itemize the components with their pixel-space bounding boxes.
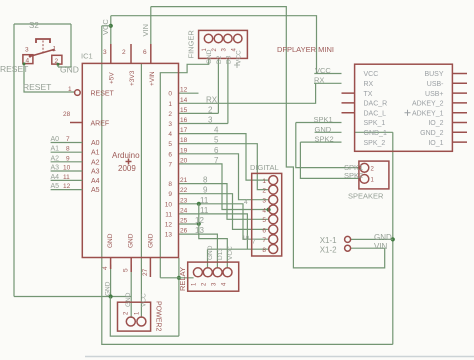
FINGER net labels: [206, 49, 243, 64]
svg-text:VCC: VCC: [236, 50, 243, 64]
svg-text:D3: D3: [226, 55, 233, 64]
svg-text:6: 6: [168, 151, 172, 158]
FINGER origin cross: [234, 62, 240, 68]
svg-text:1: 1: [53, 46, 57, 53]
svg-text:7: 7: [168, 161, 172, 168]
wire D8 to DIGITAL 5: [179, 184, 269, 220]
SPEAKER pin numbers: [371, 167, 375, 184]
wire D5 to DIGITAL 2: [179, 144, 269, 190]
wire GND to RELAY pin1: [160, 277, 193, 279]
svg-text:2: 2: [208, 105, 213, 114]
wire D4 to DIGITAL 1: [179, 134, 269, 181]
svg-text:0: 0: [168, 91, 172, 98]
svg-text:4: 4: [26, 58, 30, 65]
wire GND DFPLAYER GND_1 crossing symbol: [315, 131, 393, 133]
svg-text:24: 24: [180, 207, 188, 214]
svg-text:DIGITAL: DIGITAL: [250, 163, 279, 172]
wire D6 to DIGITAL 3: [179, 154, 269, 200]
pin 6 +VIN top: [150, 44, 152, 63]
wire RX Arduino to DFPLAYER: [179, 83, 342, 103]
svg-text:SPK2: SPK2: [315, 135, 334, 144]
wire GND main horizontal to POWER2: [14, 297, 131, 319]
wire VCC long vertical through IC to bottom GND rail: [102, 26, 393, 345]
svg-text:GND: GND: [107, 233, 114, 248]
RELAY pin circles: [193, 268, 232, 277]
junction GND at pin4: [109, 294, 113, 298]
svg-text:POWER2: POWER2: [155, 301, 162, 331]
svg-text:4: 4: [244, 199, 248, 206]
svg-text:A0: A0: [51, 136, 60, 143]
svg-text:A3: A3: [91, 169, 100, 176]
svg-text:26: 26: [180, 228, 188, 235]
connector FINGER: [199, 30, 248, 58]
DIGITAL external labels: [242, 199, 256, 246]
svg-text:4: 4: [102, 266, 109, 270]
DFPLAYER right pin stubs: [452, 74, 467, 143]
wire D2 to FINGER pin2: [179, 58, 219, 113]
svg-text:AREF: AREF: [91, 121, 110, 128]
wire GND Arduino pin4: [110, 265, 112, 297]
POWER2 pin circles: [126, 317, 146, 326]
svg-text:A0: A0: [91, 140, 100, 147]
svg-text:1: 1: [262, 178, 266, 185]
connector POWER2: [118, 302, 151, 331]
svg-text:2: 2: [122, 49, 126, 56]
svg-text:11: 11: [165, 211, 172, 218]
svg-text:7: 7: [262, 237, 266, 244]
svg-text:DFPLAYER MINI: DFPLAYER MINI: [277, 45, 334, 54]
svg-text:7: 7: [252, 239, 256, 246]
svg-text:TX: TX: [364, 91, 373, 98]
svg-text:A5: A5: [51, 183, 60, 190]
svg-text:5: 5: [262, 217, 266, 224]
svg-text:3: 3: [208, 116, 213, 125]
SPEAKER pin circles: [360, 163, 369, 183]
wire D12 stub: [179, 223, 199, 225]
pin 1 RESET bubble: [75, 90, 81, 96]
pin numbers right side of IC1: [180, 87, 188, 235]
svg-text:VIN: VIN: [141, 24, 150, 37]
svg-text:GND: GND: [315, 125, 332, 134]
pin A2: [51, 161, 83, 163]
connector RELAY: [188, 262, 239, 291]
svg-text:10: 10: [165, 201, 173, 208]
wire GND from FINGER pin1 through IC: [160, 58, 208, 277]
svg-text:SPK_1: SPK_1: [364, 120, 386, 127]
FINGER pin numbers: [202, 48, 238, 52]
pin A0: [51, 142, 83, 144]
pin X1-2: [345, 245, 351, 251]
svg-text:SPK1: SPK1: [314, 115, 333, 124]
wire VCC to RELAY pin4: [199, 204, 228, 268]
svg-text:IC1: IC1: [81, 52, 93, 61]
svg-text:12: 12: [63, 183, 71, 190]
svg-text:DAC_L: DAC_L: [364, 110, 387, 117]
junction D12: [197, 222, 201, 226]
svg-text:S2: S2: [29, 21, 39, 30]
svg-text:12: 12: [195, 216, 204, 225]
POWER2 pin numbers: [124, 311, 141, 315]
svg-text:VCC: VCC: [141, 293, 148, 307]
svg-text:17: 17: [180, 127, 188, 134]
svg-text:GND: GND: [60, 65, 79, 75]
pin A1: [51, 151, 83, 153]
wire D10 to DIGITAL 7: [179, 204, 269, 239]
svg-text:23: 23: [180, 197, 188, 204]
svg-text:12: 12: [165, 222, 173, 229]
RELAY net labels: [207, 245, 234, 260]
wire D3 to FINGER pin3: [179, 58, 228, 123]
wire D7 to DIGITAL 4: [179, 164, 269, 210]
svg-text:16: 16: [180, 117, 188, 124]
svg-text:4: 4: [262, 207, 266, 214]
svg-text:9: 9: [203, 186, 208, 195]
switch S2: [23, 39, 62, 64]
svg-text:6: 6: [143, 49, 147, 56]
svg-text:10: 10: [242, 235, 250, 242]
bottom shadow line: [85, 356, 474, 358]
POWER2 net labels GND VCC: [105, 281, 148, 307]
wire D13 to RELAY pin3: [179, 234, 218, 268]
svg-text:28: 28: [63, 111, 71, 118]
svg-text:D13: D13: [217, 248, 224, 260]
svg-text:8: 8: [66, 146, 70, 153]
svg-text:A2: A2: [51, 155, 60, 162]
svg-text:21: 21: [180, 177, 188, 184]
svg-text:GND_2: GND_2: [420, 130, 443, 137]
pin A5: [51, 189, 83, 191]
svg-text:5: 5: [123, 268, 130, 272]
svg-text:25: 25: [180, 218, 188, 225]
svg-text:1: 1: [68, 86, 72, 93]
svg-text:4: 4: [168, 131, 172, 138]
svg-text:3: 3: [262, 198, 266, 205]
svg-text:GND: GND: [105, 281, 112, 296]
svg-text:RELAY: RELAY: [178, 267, 187, 291]
svg-text:ADKEY_1: ADKEY_1: [412, 110, 444, 117]
wire SPK1: [296, 123, 360, 168]
svg-text:GND_1: GND_1: [364, 130, 387, 137]
pin 28 AREF: [70, 122, 82, 124]
svg-text:VCC: VCC: [364, 71, 379, 78]
wire D9 to DIGITAL 6: [179, 194, 269, 230]
pin 2 +3V3 top: [130, 44, 132, 63]
pin A4: [51, 179, 83, 181]
svg-text:6: 6: [262, 227, 266, 234]
svg-text:11: 11: [63, 174, 70, 181]
svg-text:RX: RX: [364, 81, 374, 88]
svg-text:D2: D2: [216, 55, 223, 64]
svg-text:7: 7: [214, 156, 219, 165]
svg-text:12: 12: [180, 87, 188, 94]
svg-text:BUSY: BUSY: [424, 71, 443, 78]
pin 27 GND bottom: [149, 258, 151, 278]
svg-text:DAC_R: DAC_R: [364, 101, 388, 108]
svg-text:20: 20: [180, 157, 188, 164]
DFPLAYER left pin stubs TX DAC_R DAC_L: [342, 93, 355, 113]
svg-text:SPK2: SPK2: [344, 171, 363, 180]
svg-text:27: 27: [142, 268, 149, 276]
junction VCC: [109, 24, 113, 28]
svg-text:9: 9: [168, 191, 172, 198]
svg-text:VCC: VCC: [101, 19, 110, 35]
svg-text:3: 3: [25, 47, 29, 54]
svg-text:+VIN: +VIN: [149, 71, 156, 86]
FINGER pin circles: [204, 34, 242, 42]
DFPLAYER origin cross: [405, 110, 411, 116]
junction DIGITAL 4: [267, 208, 271, 212]
svg-text:GND: GND: [128, 233, 135, 248]
svg-text:GND: GND: [207, 245, 214, 260]
DIGITAL pin circles: [269, 176, 278, 254]
svg-text:8: 8: [203, 176, 208, 185]
pin X1-1: [345, 236, 351, 242]
svg-text:A4: A4: [91, 178, 100, 185]
pin 5 GND bottom: [130, 258, 132, 273]
svg-text:5: 5: [214, 136, 219, 145]
svg-text:3: 3: [103, 49, 107, 56]
pin 4 GND bottom: [110, 258, 112, 270]
DFPLAYER left pin names: [364, 71, 388, 147]
svg-text:6: 6: [214, 146, 219, 155]
svg-text:RESET: RESET: [23, 82, 51, 92]
junction GND at X1-1: [391, 237, 395, 241]
junction D10: [197, 202, 201, 206]
svg-text:A1: A1: [51, 146, 60, 153]
connector SPEAKER: [359, 161, 389, 189]
wire VIN rail from Arduino pin6 to X1-2: [151, 7, 385, 268]
RELAY pin numbers: [192, 282, 228, 286]
op-amp IC1 Arduino 2009 body: [82, 63, 178, 257]
svg-text:11: 11: [200, 196, 209, 205]
svg-text:USB+: USB+: [425, 91, 443, 98]
wire GND loop around S2: [14, 24, 71, 297]
wire SPK2: [300, 142, 360, 178]
svg-text:4: 4: [214, 126, 219, 135]
svg-text:USB-: USB-: [427, 81, 444, 88]
wire GND POWER2 pin2 from Arduino pin5: [130, 265, 132, 297]
DFPLAYER right pin names: [412, 71, 444, 147]
wire D11 to DIGITAL 8 and RELAY pin2: [179, 214, 269, 268]
wire GND X1-1: [351, 238, 393, 240]
svg-text:1: 1: [168, 101, 172, 108]
wire VCC top rail to DFPLAYER: [111, 16, 342, 74]
svg-text:+5V: +5V: [109, 72, 116, 84]
svg-text:2: 2: [262, 188, 266, 195]
svg-text:IO_2: IO_2: [428, 120, 443, 127]
svg-text:7: 7: [66, 136, 70, 143]
DIGITAL pin numbers: [262, 178, 266, 254]
svg-text:13: 13: [195, 226, 204, 235]
svg-text:ADKEY_2: ADKEY_2: [412, 101, 444, 108]
svg-text:IO_1: IO_1: [428, 140, 443, 147]
svg-text:FINGER: FINGER: [187, 30, 196, 59]
svg-text:A4: A4: [51, 174, 60, 181]
svg-text:X1-2: X1-2: [320, 245, 337, 254]
svg-text:A3: A3: [51, 165, 60, 172]
svg-text:14: 14: [180, 97, 188, 104]
svg-text:GND: GND: [206, 49, 213, 64]
svg-text:A5: A5: [91, 187, 100, 194]
wire RESET from S2 to IC1 pin 1: [24, 64, 75, 92]
svg-text:GND: GND: [374, 233, 392, 242]
svg-text:SPK_2: SPK_2: [364, 140, 386, 147]
svg-text:5: 5: [168, 141, 172, 148]
svg-text:3: 3: [168, 121, 172, 128]
svg-text:18: 18: [180, 137, 188, 144]
svg-text:VCC: VCC: [227, 246, 234, 260]
svg-text:RESET: RESET: [91, 91, 115, 98]
svg-text:22: 22: [180, 187, 188, 194]
svg-text:X1-1: X1-1: [320, 236, 337, 245]
svg-text:10: 10: [63, 165, 71, 172]
svg-text:GND: GND: [148, 233, 155, 248]
svg-text:GND: GND: [125, 292, 132, 307]
pin A3: [51, 170, 83, 172]
svg-text:15: 15: [180, 107, 188, 114]
pin 3 +5V top: [110, 44, 112, 63]
junction GND relay branch: [177, 276, 181, 280]
svg-text:+3V3: +3V3: [129, 70, 136, 86]
svg-text:9: 9: [66, 155, 70, 162]
svg-text:2009: 2009: [118, 164, 136, 173]
svg-text:8: 8: [262, 247, 266, 254]
svg-text:11: 11: [200, 206, 209, 215]
svg-text:SPEAKER: SPEAKER: [348, 192, 384, 201]
svg-text:19: 19: [180, 147, 188, 154]
svg-text:Arduino: Arduino: [112, 151, 140, 160]
wire VCC through IC to POWER2 pin1: [140, 64, 142, 318]
net labels on digital rows: [195, 95, 219, 235]
svg-text:RX: RX: [314, 76, 324, 85]
svg-text:RESET: RESET: [0, 64, 28, 74]
svg-text:A2: A2: [91, 159, 100, 166]
connector DIGITAL: [252, 173, 282, 256]
pin names 0-13 inside IC1 right: [165, 91, 173, 239]
svg-text:8: 8: [168, 181, 172, 188]
svg-text:VCC: VCC: [315, 66, 331, 75]
svg-text:2: 2: [55, 58, 59, 65]
svg-text:VIN: VIN: [374, 242, 388, 251]
svg-text:13: 13: [165, 232, 173, 239]
svg-text:A1: A1: [91, 150, 100, 157]
svg-text:2: 2: [168, 111, 172, 118]
wire GND branch down-right to relay column: [110, 258, 179, 336]
wire D0 stub: [179, 92, 199, 94]
svg-text:RX: RX: [206, 95, 218, 104]
